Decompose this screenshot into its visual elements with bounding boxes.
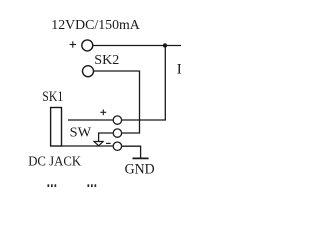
svg-text:SK2: SK2 (94, 53, 119, 68)
wire: jack center pin stub (68, 119, 113, 121)
svg-text:SW: SW (70, 125, 92, 140)
svg-text:12VDC/150mA: 12VDC/150mA (51, 18, 140, 33)
jack + pin circle (113, 116, 121, 124)
wire: SW pin bend (99, 133, 114, 141)
wire: - pin to ground (122, 146, 141, 158)
ground (133, 157, 149, 159)
svg-text:SK1: SK1 (42, 89, 63, 105)
pin label + (jack tip) (100, 109, 106, 115)
connector SK2 pin 2 circle (83, 66, 94, 77)
pin label - (minus) (106, 142, 111, 144)
switch contact arrow (94, 142, 103, 146)
wire: junction down to jack + pin (122, 46, 166, 121)
svg-text:GND: GND (125, 161, 155, 177)
jack - pin circle (113, 142, 121, 150)
wire: jack sleeve to - pin (61, 145, 114, 147)
jack SW pin circle (113, 129, 121, 137)
connector SK2 pin 1 (+ terminal circle) (82, 40, 93, 51)
wire: SK2 pin 2 to jack SW pin (94, 71, 140, 133)
wire: + terminal to right edge (93, 45, 181, 47)
svg-text:DC JACK: DC JACK (28, 154, 81, 169)
DC jack SK1 body (51, 108, 62, 147)
junction dot (163, 43, 167, 47)
cut-off caption text (bottom edge) (48, 184, 97, 187)
svg-text:IN: IN (177, 62, 181, 78)
plus polarity label (supply +) (70, 41, 76, 47)
